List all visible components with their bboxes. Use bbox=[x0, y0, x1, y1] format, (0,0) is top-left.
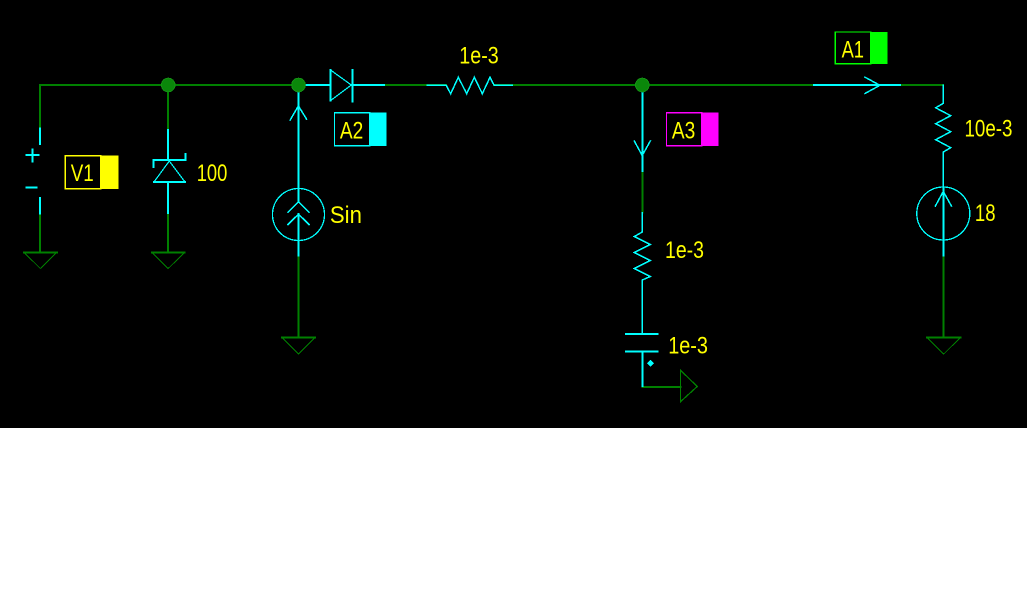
label box A3 bbox=[667, 113, 719, 146]
svg-text:10e-3: 10e-3 bbox=[965, 116, 1013, 143]
ammeter A2 element (vertical wire with up arrow) bbox=[290, 85, 306, 202]
node junction 2 bbox=[292, 78, 306, 92]
node junction 1 bbox=[161, 78, 175, 92]
svg-text:A1: A1 bbox=[842, 37, 864, 64]
voltage source V1 (leads and polarity marks) bbox=[26, 128, 40, 213]
svg-text:1e-3: 1e-3 bbox=[459, 43, 498, 70]
capacitor polarity dot bbox=[647, 360, 654, 367]
ground (right branch) bbox=[927, 338, 960, 355]
svg-text:Sin: Sin bbox=[330, 202, 362, 229]
wire: zener branch upper segment bbox=[167, 85, 169, 130]
wire: Sin source to ground bbox=[298, 256, 300, 338]
output port arrow (green triangle) bbox=[681, 370, 698, 402]
ground (Sin branch) bbox=[282, 338, 315, 355]
resistor 1e-3 (middle vertical) bbox=[634, 213, 650, 335]
current source Sin bbox=[273, 189, 325, 256]
svg-text:18: 18 bbox=[975, 200, 996, 227]
node junction 3 bbox=[636, 78, 650, 92]
wire: capacitor output elbow bbox=[642, 386, 680, 387]
schematic canvas background bbox=[0, 0, 1027, 428]
label box A1 bbox=[835, 32, 887, 64]
zener diode (100) bbox=[153, 130, 185, 213]
wire: zener branch lower segment bbox=[167, 213, 169, 252]
svg-text:1e-3: 1e-3 bbox=[668, 332, 708, 359]
wire: A3 to resistor segment bbox=[641, 171, 643, 213]
wire: right source to ground bbox=[942, 256, 944, 338]
wire: top horizontal between diode and resistor bbox=[352, 84, 446, 86]
wire: top horizontal net segment left bbox=[40, 85, 943, 387]
ammeter A1 element (horizontal wire with right arrow) bbox=[814, 77, 900, 93]
label box A2 bbox=[335, 113, 387, 146]
resistor 10e-3 (right vertical) bbox=[936, 85, 951, 188]
wire: V1 branch lower segment bbox=[39, 214, 41, 253]
svg-text:A2: A2 bbox=[340, 118, 363, 145]
svg-text:A3: A3 bbox=[672, 118, 695, 145]
wire: top horizontal right of resistor to top-right corner bbox=[494, 84, 943, 86]
ground (V1 branch) bbox=[24, 252, 57, 268]
capacitor 1e-3 bbox=[626, 334, 658, 386]
ammeter A3 element (vertical wire with down arrow) bbox=[634, 85, 650, 171]
resistor 1e-3 (top horizontal) bbox=[427, 77, 512, 93]
current source 18 bbox=[917, 187, 970, 256]
ground (zener branch) bbox=[152, 252, 185, 268]
diode D1 on top wire bbox=[306, 70, 384, 102]
label box V1 bbox=[65, 156, 118, 189]
svg-text:100: 100 bbox=[197, 160, 228, 187]
svg-text:1e-3: 1e-3 bbox=[665, 237, 704, 264]
svg-text:V1: V1 bbox=[71, 160, 94, 187]
